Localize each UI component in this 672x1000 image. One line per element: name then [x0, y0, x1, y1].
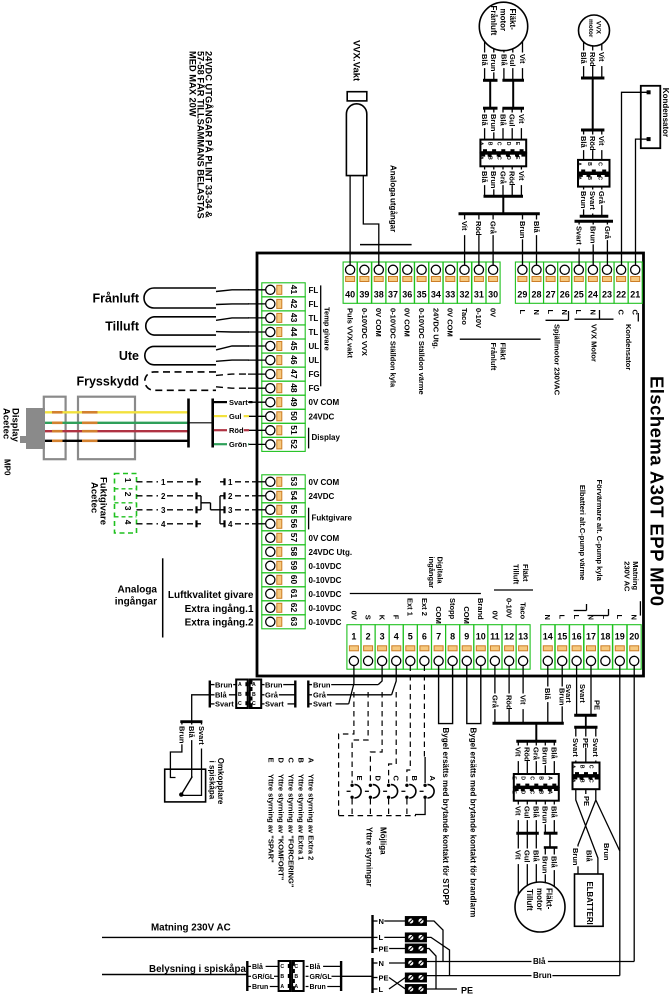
svg-text:Analoga: Analoga: [389, 165, 398, 197]
stub terminal 49: [248, 401, 266, 403]
svg-text:Grå: Grå: [490, 695, 499, 709]
svg-text:57: 57: [289, 533, 299, 543]
wire Frysskydd to terminal 47: [216, 374, 249, 375]
svg-text:B: B: [252, 692, 256, 698]
svg-text:39: 39: [359, 290, 369, 300]
terminal 3: [375, 625, 389, 670]
svg-text:34: 34: [431, 290, 441, 300]
svg-text:Röd: Röd: [474, 221, 483, 236]
svg-text:Elbatteri alt.C-pump värme: Elbatteri alt.C-pump värme: [578, 485, 587, 580]
wire Grå omkopplare chain right: [308, 694, 312, 696]
terminal 19: [613, 625, 627, 670]
svg-text:0-10VDC: 0-10VDC: [309, 618, 342, 627]
wire elbatteri Brun to L line: [596, 800, 620, 851]
junction bar vvx split 2: [575, 220, 614, 223]
wire frånluft board feed Brun: [493, 166, 495, 195]
display cable link: [189, 422, 213, 424]
svg-text:Brun: Brun: [489, 171, 498, 189]
terminal 13: [516, 625, 530, 670]
svg-text:ingångar: ingångar: [427, 557, 436, 589]
terminal 12: [502, 625, 516, 670]
wire elbatteri PE stub: [585, 789, 587, 794]
svg-text:FL: FL: [309, 286, 319, 295]
bracket Digitala ingångar (terminals 1-10): [350, 593, 481, 595]
wire belysning PE out: [426, 988, 457, 990]
terminal 56: [262, 517, 305, 531]
wire frånluft board feed Vit: [520, 166, 522, 195]
svg-text:38: 38: [374, 290, 384, 300]
wire Brun omkopplare chain left: [210, 684, 215, 686]
wire vvx board feed Grå: [601, 187, 603, 215]
wire vvx board feed Brun: [583, 187, 585, 215]
matning terminal block L: [405, 933, 426, 942]
svg-text:Blå: Blå: [585, 850, 594, 863]
wire tilluft motor Gul: [526, 833, 528, 885]
svg-text:Fläkt-: Fläkt-: [545, 888, 554, 910]
wire tilluft below connector Blå: [553, 801, 555, 832]
svg-text:2: 2: [366, 632, 371, 642]
svg-text:0V COM: 0V COM: [309, 478, 340, 487]
connector block tilluft (A-E): [514, 774, 559, 787]
svg-text:Svart: Svart: [571, 738, 580, 757]
svg-text:GR/GL: GR/GL: [310, 974, 333, 981]
wire tilluft motor Vit: [517, 833, 519, 894]
belysning crossing X: [389, 978, 405, 990]
svg-text:C: C: [294, 964, 298, 970]
svg-text:Grå: Grå: [597, 191, 606, 205]
bracket Display (terminals 51-52): [308, 428, 310, 449]
wire frånluft connector feed Vit: [520, 108, 522, 139]
terminal 21: [628, 262, 642, 303]
svg-text:63: 63: [289, 617, 299, 627]
svg-text:24VDC Utg.: 24VDC Utg.: [309, 548, 353, 557]
svg-text:Grå: Grå: [532, 747, 541, 761]
svg-text:Brun: Brun: [252, 984, 268, 991]
svg-text:N: N: [379, 917, 384, 926]
svg-text:51: 51: [289, 425, 299, 435]
svg-text:VVX: VVX: [595, 21, 602, 35]
wire VVX.Vakt to terminal 40: [349, 176, 351, 266]
svg-text:40: 40: [345, 290, 355, 300]
terminal 2: [361, 625, 375, 670]
svg-text:Display: Display: [312, 433, 341, 442]
svg-text:PE: PE: [461, 986, 473, 996]
wire Grå omkopplare chain mid: [262, 694, 265, 696]
svg-text:Gul: Gul: [508, 114, 517, 126]
svg-text:C: C: [287, 758, 296, 764]
stub terminal 48: [248, 387, 266, 389]
bracket Temp givare (terminals 41-48): [320, 285, 322, 386]
stub terminal 43: [248, 317, 266, 319]
svg-text:Taco: Taco: [460, 308, 469, 325]
svg-text:Röd: Röd: [588, 136, 597, 151]
svg-text:Stopp: Stopp: [448, 598, 457, 620]
svg-text:Puls VVX.vakt: Puls VVX.vakt: [346, 308, 355, 359]
wire vvx connector feed Röd: [592, 130, 594, 160]
svg-text:Blå: Blå: [498, 114, 507, 127]
wire terminal 6 to switch A: [423, 666, 425, 758]
svg-text:Blå: Blå: [532, 221, 541, 234]
svg-text:Vit: Vit: [517, 171, 526, 181]
svg-text:C: C: [238, 701, 242, 707]
wire omkopplare Brun: [170, 722, 182, 778]
svg-text:Luftkvalitet givare: Luftkvalitet givare: [168, 590, 254, 601]
svg-text:Röd: Röd: [523, 747, 532, 762]
svg-text:0-10V: 0-10V: [504, 598, 513, 618]
svg-text:Gul: Gul: [523, 850, 532, 863]
svg-text:UL: UL: [309, 342, 320, 351]
connector block elbatteri (A-B-C): [573, 763, 600, 776]
svg-text:Kondensator: Kondensator: [661, 88, 670, 137]
wire to terminal 30 (Grå): [492, 214, 494, 266]
wire to terminal 29 (Brun): [522, 214, 524, 266]
svg-text:Kondensator: Kondensator: [624, 324, 633, 370]
terminal 38: [372, 262, 386, 303]
wire frånluft connector feed Blå: [484, 108, 486, 139]
terminal 24: [586, 262, 600, 303]
omkopplare i spiskåpa box: [165, 769, 206, 802]
svg-text:PE: PE: [581, 738, 590, 748]
svg-text:31: 31: [474, 290, 484, 300]
matning wire PE: [373, 948, 378, 950]
svg-text:Brun: Brun: [533, 971, 552, 980]
wire elbatteri connector feed Svart: [575, 727, 577, 762]
svg-text:Acetec: Acetec: [1, 408, 12, 439]
svg-text:B: B: [578, 765, 584, 769]
svg-text:K: K: [378, 615, 387, 621]
svg-text:Gul: Gul: [523, 806, 532, 819]
stub terminal 50: [248, 415, 266, 417]
fuktgivare plug (green dashed): [115, 474, 137, 534]
wire Svart omkopplare chain right: [308, 703, 312, 705]
svg-text:Elschema A30T EPP MP0: Elschema A30T EPP MP0: [647, 376, 668, 607]
svg-text:S: S: [363, 615, 372, 620]
svg-text:36: 36: [402, 290, 412, 300]
svg-text:Brun: Brun: [310, 984, 326, 991]
svg-text:Vit: Vit: [460, 221, 469, 231]
wire terminal 13 Vit: [522, 666, 524, 723]
svg-text:55: 55: [289, 505, 299, 515]
switch A: [423, 784, 426, 787]
svg-text:F: F: [392, 615, 401, 620]
svg-text:GR/GL: GR/GL: [252, 974, 275, 981]
svg-text:4: 4: [394, 632, 399, 642]
wire tilluft motor Brun: [544, 848, 546, 883]
svg-text:Ext 2: Ext 2: [420, 598, 429, 616]
wire elbatteri connector feed Svart: [595, 727, 597, 762]
belysning terminal block L: [405, 985, 426, 994]
wire Ute to terminal 46: [216, 360, 249, 361]
svg-text:33: 33: [445, 290, 455, 300]
terminal 9: [460, 625, 474, 670]
svg-text:Vit: Vit: [514, 747, 523, 757]
svg-text:Blå: Blå: [579, 136, 588, 149]
svg-text:6: 6: [422, 632, 427, 642]
display wire Svart: [45, 440, 188, 442]
terminal 61: [262, 587, 305, 601]
wire Ute to terminal 45: [216, 346, 249, 350]
stub terminal 54: [252, 495, 266, 497]
terminal 53: [262, 475, 305, 489]
wire to terminal 25 (Svart): [578, 221, 580, 265]
svg-text:MED MAX 20W: MED MAX 20W: [187, 51, 197, 117]
jumper terminals 9-10 (Bygel brandlarm): [467, 666, 481, 724]
svg-text:B: B: [238, 692, 242, 698]
terminal 41: [262, 283, 305, 297]
stub terminal 52: [248, 443, 266, 445]
junction bar omkopplare mid-right: [307, 681, 309, 708]
svg-text:Blå: Blå: [252, 963, 263, 971]
main controller board outline: [257, 253, 644, 676]
bracket Fuktgivare (terminals 55-56): [308, 508, 310, 530]
terminal 22: [614, 262, 628, 303]
belysning terminal block PE: [405, 973, 426, 982]
svg-text:TL: TL: [309, 328, 319, 337]
terminal 25: [572, 262, 586, 303]
svg-text:0V COM: 0V COM: [309, 534, 340, 543]
kondensator pin 1: [647, 90, 651, 94]
wire frånluft connector feed Gul: [511, 108, 513, 139]
wire terminal 11 Grå: [494, 666, 496, 723]
svg-text:8: 8: [450, 632, 455, 642]
wire matning feed L: [102, 936, 373, 938]
svg-text:19: 19: [615, 632, 625, 642]
wire terminal 3 to switch D: [370, 692, 382, 783]
svg-text:L: L: [379, 933, 384, 942]
wire terminal 1 dashed branch: [339, 692, 354, 816]
svg-text:C: C: [496, 142, 502, 146]
svg-text:45: 45: [289, 341, 299, 351]
svg-text:49: 49: [289, 397, 299, 407]
svg-text:29: 29: [517, 290, 527, 300]
terminal 6: [417, 625, 431, 670]
display housing 1: [44, 397, 66, 460]
svg-text:FG: FG: [309, 384, 320, 393]
svg-text:22: 22: [616, 290, 626, 300]
svg-text:1: 1: [228, 478, 233, 487]
svg-text:Svart: Svart: [591, 738, 600, 757]
junction bar belysning 2: [340, 961, 342, 991]
wire terminal 1 to Svart row: [349, 666, 354, 704]
wire terminal 3 to Brun row: [378, 666, 382, 685]
wire terminal 16 Svart: [576, 666, 578, 715]
svg-text:PE: PE: [593, 700, 602, 710]
svg-text:i spiskåpa: i spiskåpa: [208, 761, 217, 800]
svg-text:12: 12: [504, 632, 514, 642]
wire switch C to bus: [388, 799, 390, 816]
wire terminal 4 to switch C: [389, 692, 397, 783]
svg-text:Ute: Ute: [119, 349, 139, 363]
svg-text:Blå: Blå: [532, 806, 541, 819]
svg-text:D: D: [277, 758, 286, 764]
wire terminal 14 Blå: [547, 666, 549, 723]
svg-text:35: 35: [417, 290, 427, 300]
svg-text:Gul: Gul: [508, 54, 517, 67]
junction bar frånluft motor right: [502, 79, 524, 82]
terminal 4: [389, 625, 403, 670]
svg-text:0-10V: 0-10V: [474, 308, 483, 328]
svg-text:2: 2: [228, 492, 233, 501]
svg-text:Blå: Blå: [532, 850, 541, 863]
wire Svart to terminal 49: [214, 401, 227, 403]
stub terminal 45: [248, 345, 266, 347]
terminal 42: [262, 297, 305, 311]
wire belysning N to block: [389, 962, 405, 964]
svg-text:A: A: [576, 162, 582, 166]
svg-text:A: A: [294, 984, 298, 990]
svg-text:Brun: Brun: [602, 843, 611, 861]
svg-text:Brun: Brun: [518, 221, 527, 239]
svg-text:Brun: Brun: [571, 848, 580, 866]
svg-text:Svart: Svart: [229, 398, 248, 407]
bracket Elbatteri alt.C-pump värme (terminals 17-18): [588, 615, 609, 617]
svg-text:59: 59: [289, 561, 299, 571]
svg-text:COM: COM: [462, 606, 471, 624]
svg-text:16: 16: [572, 632, 582, 642]
wire Blå omkopplare chain left: [210, 694, 215, 696]
svg-text:N: N: [532, 310, 541, 315]
matning wire L: [373, 936, 378, 938]
svg-text:E: E: [355, 776, 364, 781]
svg-text:41: 41: [289, 285, 299, 295]
svg-text:43: 43: [289, 313, 299, 323]
svg-text:48: 48: [289, 383, 299, 393]
terminal 36: [400, 262, 414, 303]
stub terminal 42: [248, 303, 266, 305]
svg-text:Svart: Svart: [215, 700, 234, 709]
svg-text:0V COM: 0V COM: [446, 308, 455, 337]
terminal 45: [262, 339, 305, 353]
svg-text:Svart: Svart: [578, 684, 587, 703]
wire Brun omkopplare chain mid: [262, 684, 265, 686]
wire kondensator to terminal 21: [636, 139, 649, 265]
svg-text:4: 4: [161, 520, 166, 529]
svg-text:2: 2: [123, 492, 133, 497]
junction bar vvx merge 2: [580, 215, 609, 218]
svg-text:Yttre styrning av "KOMFORT": Yttre styrning av "KOMFORT": [277, 774, 286, 881]
svg-text:Grå: Grå: [313, 691, 327, 700]
svg-text:28: 28: [531, 290, 541, 300]
kondensator pin 2: [647, 137, 651, 141]
wire terminal 2 to switch E: [352, 692, 368, 783]
stub terminal 56: [252, 523, 266, 525]
svg-text:Blå: Blå: [533, 957, 546, 966]
svg-text:FL: FL: [309, 300, 319, 309]
svg-text:Yttre styrning av "FORCERING": Yttre styrning av "FORCERING": [287, 774, 296, 888]
wire elbatteri Brun (crossing): [578, 789, 596, 874]
svg-text:44: 44: [289, 327, 299, 337]
svg-text:Vit: Vit: [519, 695, 528, 705]
bracket Kondensator (terminals 22-21): [637, 313, 639, 322]
wire matning PE down: [426, 949, 436, 990]
matning terminal block PE: [405, 944, 426, 953]
svg-text:Extra ingång.1: Extra ingång.1: [185, 603, 254, 615]
svg-text:61: 61: [289, 589, 299, 599]
svg-text:7: 7: [436, 632, 441, 642]
wire terminal 15 Brun: [561, 666, 563, 723]
stub terminal 44: [248, 331, 266, 333]
svg-text:62: 62: [289, 603, 299, 613]
svg-text:11: 11: [490, 632, 500, 642]
svg-text:FG: FG: [309, 370, 320, 379]
wire tilluft motor Blå: [535, 833, 537, 882]
svg-text:47: 47: [289, 369, 299, 379]
terminal 50: [262, 409, 305, 423]
wire tilluft connector feed Grå: [535, 741, 537, 774]
wire vvx motor stub Blå: [583, 42, 585, 78]
svg-text:Brun: Brun: [541, 856, 550, 874]
svg-text:PE: PE: [582, 796, 591, 806]
wire elbatteri connector feed PE: [585, 727, 587, 762]
belysning terminal wire L: [373, 988, 378, 990]
bracket Fläkt Tilluft (terminals 11-13): [494, 589, 533, 591]
svg-text:Blå: Blå: [480, 54, 489, 67]
junction bar tilluft merge left: [516, 832, 539, 835]
wire terminal 4 to Grå row: [392, 666, 397, 695]
svg-text:Blå: Blå: [187, 726, 196, 739]
junction bar tilluft split: [516, 740, 556, 743]
motor Fläkt-motor Frånluft: [479, 2, 527, 50]
svg-text:56: 56: [289, 519, 299, 529]
terminal 37: [386, 262, 400, 303]
svg-text:B: B: [586, 162, 592, 166]
svg-text:Röd: Röd: [588, 52, 597, 67]
svg-text:Brun: Brun: [541, 806, 550, 824]
belysning terminal wire N: [373, 962, 378, 964]
terminal 63: [262, 615, 305, 629]
omkopplare switch lever: [179, 792, 183, 796]
wire frånluft cable left: [489, 80, 491, 108]
svg-text:Brun: Brun: [489, 54, 498, 72]
svg-text:Bygel ersätts med brytande kon: Bygel ersätts med brytande kontakt för b…: [469, 728, 478, 918]
svg-text:Brun: Brun: [489, 114, 498, 132]
display wire Röd: [45, 430, 188, 432]
belysning wire Blå left: [247, 965, 251, 967]
svg-text:14: 14: [543, 632, 553, 642]
svg-text:37: 37: [388, 290, 398, 300]
svg-text:A: A: [428, 776, 437, 782]
junction bar elbatteri merge: [574, 714, 597, 717]
bracket Spjällmotor 230VAC (terminals 27-26): [546, 319, 569, 321]
svg-text:0-10VDC Ställdon kyla: 0-10VDC Ställdon kyla: [388, 308, 397, 388]
svg-text:Yttre styrning av Extra 2: Yttre styrning av Extra 2: [307, 774, 316, 860]
svg-text:18: 18: [600, 632, 610, 642]
display wire Grön: [45, 422, 188, 424]
terminal 32: [458, 262, 472, 303]
bracket analoga utgångar line: [360, 244, 412, 246]
wire matning N to Blå line: [426, 921, 443, 962]
wire tilluft connector feed Brun: [544, 741, 546, 774]
svg-text:Blå: Blå: [480, 114, 489, 127]
wire frånluft cable right: [512, 80, 514, 108]
wire motor frånluft stub Gul: [512, 49, 514, 79]
svg-text:L: L: [572, 615, 581, 620]
wire omkopplare Blå: [191, 722, 193, 778]
terminal 8: [446, 625, 460, 670]
svg-text:utgångar: utgångar: [389, 198, 398, 232]
svg-text:4: 4: [123, 520, 133, 525]
wire switch A to bus: [415, 799, 425, 815]
terminal 48: [262, 381, 305, 395]
wire vvx board feed Svart: [592, 187, 594, 215]
stub terminal 46: [248, 359, 266, 361]
svg-text:motor: motor: [587, 19, 594, 38]
display plug silhouette: [20, 408, 45, 449]
svg-text:58: 58: [289, 547, 299, 557]
svg-text:Vit: Vit: [597, 52, 606, 62]
wire belysning link: [341, 975, 372, 977]
switch E: [350, 784, 353, 787]
